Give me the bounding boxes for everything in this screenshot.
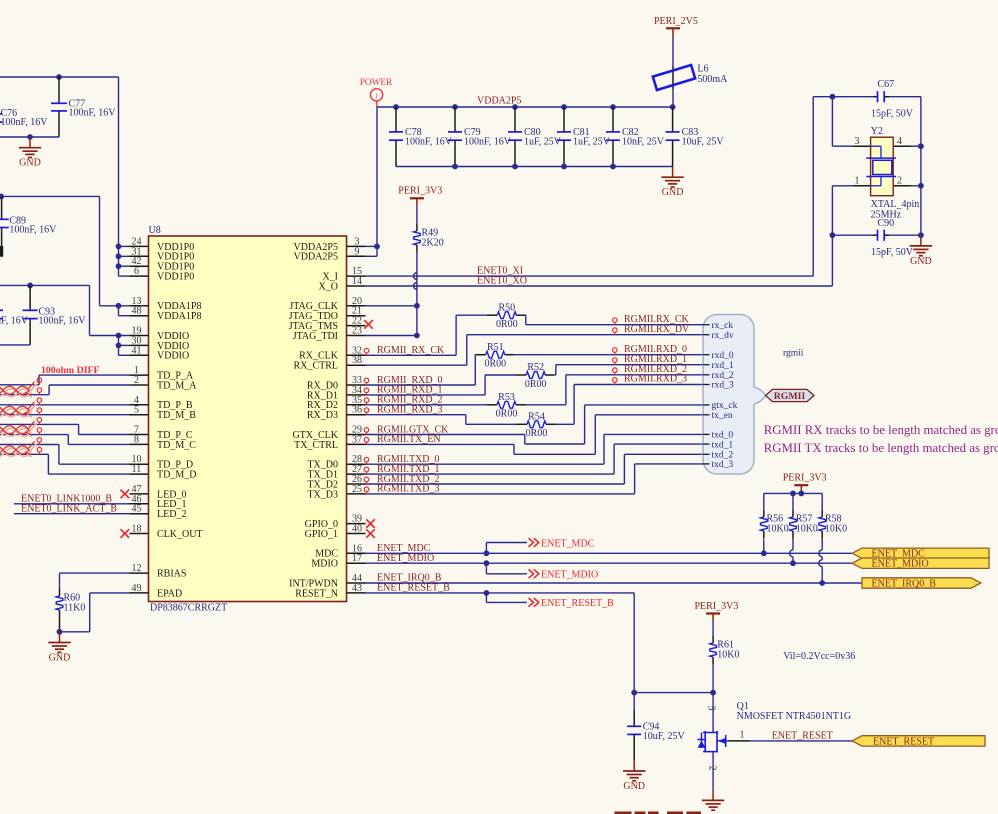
svg-text:TD_M_C: TD_M_C: [157, 440, 196, 451]
svg-text:ENET0_XO: ENET0_XO: [477, 276, 527, 287]
svg-text:10uF, 25V: 10uF, 25V: [682, 136, 725, 147]
svg-text:PERI_3V3: PERI_3V3: [398, 186, 442, 197]
svg-text:36: 36: [352, 405, 362, 416]
svg-text:1uF, 25V: 1uF, 25V: [524, 136, 562, 147]
svg-text:RESET_N: RESET_N: [295, 588, 338, 599]
svg-text:ENET_MDIO: ENET_MDIO: [541, 570, 598, 581]
svg-text:49: 49: [132, 583, 142, 594]
svg-text:38: 38: [352, 355, 362, 366]
svg-text:R50: R50: [498, 302, 515, 313]
svg-text:RGMII.RXD_3: RGMII.RXD_3: [624, 374, 687, 385]
svg-text:100nF, 16V: 100nF, 16V: [405, 136, 453, 147]
svg-text:1uF, 25V: 1uF, 25V: [573, 136, 611, 147]
svg-text:CLK_OUT: CLK_OUT: [157, 529, 203, 540]
svg-text:RGMII.TX_EN: RGMII.TX_EN: [377, 434, 441, 445]
svg-text:11K0: 11K0: [64, 603, 86, 614]
svg-text:VDDIO: VDDIO: [157, 351, 189, 362]
svg-text:10uF, 25V: 10uF, 25V: [643, 731, 686, 742]
svg-text:RX_D3: RX_D3: [307, 410, 338, 421]
svg-text:ENET_RESET_B: ENET_RESET_B: [541, 598, 614, 609]
svg-text:rx_dv: rx_dv: [712, 331, 734, 341]
svg-text:rxd_3: rxd_3: [712, 381, 734, 391]
svg-text:14: 14: [352, 276, 362, 287]
svg-text:15pF, 50V: 15pF, 50V: [871, 247, 914, 258]
svg-text:NMOSFET NTR4501NT1G: NMOSFET NTR4501NT1G: [737, 711, 852, 722]
svg-text:10K0: 10K0: [825, 524, 847, 535]
svg-text:500mA: 500mA: [697, 74, 728, 85]
svg-text:48: 48: [132, 306, 142, 317]
svg-text:ENET_RESET: ENET_RESET: [873, 736, 934, 747]
svg-text:MDIO: MDIO: [311, 559, 338, 570]
svg-text:10K0: 10K0: [767, 524, 789, 535]
svg-text:PERI_2V5: PERI_2V5: [654, 16, 698, 27]
svg-text:rx_ck: rx_ck: [712, 321, 734, 331]
svg-text:ENET_RESET: ENET_RESET: [772, 730, 833, 741]
svg-text:RBIAS: RBIAS: [157, 569, 186, 580]
svg-text:8: 8: [134, 434, 139, 445]
svg-text:2K20: 2K20: [422, 238, 444, 249]
svg-text:45: 45: [132, 504, 142, 515]
svg-text:0R00: 0R00: [496, 409, 518, 420]
svg-text:tx_en: tx_en: [712, 411, 733, 421]
svg-text:VDD1P0: VDD1P0: [157, 272, 194, 283]
svg-text:10nF, 25V: 10nF, 25V: [622, 136, 665, 147]
svg-text:rxd_1: rxd_1: [712, 361, 734, 371]
svg-text:RGMII_RXD_3: RGMII_RXD_3: [377, 405, 443, 416]
svg-text:TD_M_B: TD_M_B: [157, 410, 196, 421]
svg-text:11: 11: [132, 464, 142, 475]
svg-text:17: 17: [352, 553, 362, 564]
svg-text:TX_CTRL: TX_CTRL: [294, 440, 338, 451]
svg-text:2: 2: [707, 766, 718, 771]
svg-text:txd_1: txd_1: [712, 440, 734, 450]
svg-text:GND: GND: [623, 781, 645, 792]
svg-text:GND: GND: [662, 187, 684, 198]
svg-text:LED_2: LED_2: [157, 509, 186, 520]
svg-text:POWER: POWER: [360, 78, 393, 88]
svg-text:txd_3: txd_3: [712, 460, 734, 470]
svg-text:0R00: 0R00: [526, 428, 548, 439]
svg-text:5: 5: [134, 405, 139, 416]
svg-text:2: 2: [134, 375, 139, 386]
svg-text:15pF, 50V: 15pF, 50V: [871, 109, 914, 120]
svg-text:RGMII.TXD_3: RGMII.TXD_3: [377, 484, 440, 495]
svg-text:rxd_2: rxd_2: [712, 371, 734, 381]
svg-text:1: 1: [855, 175, 860, 186]
svg-text:25MHz: 25MHz: [871, 209, 902, 220]
svg-text:0R00: 0R00: [525, 379, 547, 390]
svg-text:RX_CTRL: RX_CTRL: [294, 361, 338, 372]
svg-text:100nF, 16V: 100nF, 16V: [1, 117, 49, 128]
svg-text:ENET0_LINK_ACT_B: ENET0_LINK_ACT_B: [21, 503, 117, 514]
svg-text:TX_D3: TX_D3: [307, 489, 338, 500]
svg-text:0R00: 0R00: [496, 319, 518, 330]
svg-text:C67: C67: [878, 79, 895, 90]
svg-text:R53: R53: [498, 392, 515, 403]
svg-text:RGMII.RX_DV: RGMII.RX_DV: [624, 324, 690, 335]
svg-text:VDDA1P8: VDDA1P8: [157, 311, 201, 322]
svg-text:X_O: X_O: [319, 281, 338, 292]
svg-text:6: 6: [134, 266, 139, 277]
svg-text:ENET_MDIO: ENET_MDIO: [872, 559, 929, 570]
svg-text:ENET_RESET_B: ENET_RESET_B: [377, 583, 450, 594]
svg-text:2: 2: [897, 175, 902, 186]
svg-text:GND: GND: [19, 158, 41, 169]
svg-text:4: 4: [897, 136, 902, 147]
svg-text:RGMII_RX_CK: RGMII_RX_CK: [377, 345, 445, 356]
svg-text:GPIO_1: GPIO_1: [305, 529, 338, 540]
svg-text:U8: U8: [149, 225, 161, 236]
svg-text:GND: GND: [49, 652, 71, 663]
svg-text:TD_M_D: TD_M_D: [157, 470, 196, 481]
svg-text:100ohm DIFF: 100ohm DIFF: [41, 365, 100, 376]
svg-text:100nF, 16V: 100nF, 16V: [69, 108, 117, 119]
svg-text:18: 18: [132, 524, 142, 535]
svg-text:R51: R51: [487, 342, 504, 353]
svg-text:37: 37: [352, 434, 362, 445]
svg-text:ENET_IRQ0_B: ENET_IRQ0_B: [872, 578, 937, 589]
svg-text:Vil=0.2Vcc=0v36: Vil=0.2Vcc=0v36: [783, 651, 855, 662]
svg-text:100nF, 16V: 100nF, 16V: [0, 316, 29, 327]
svg-text:ENET_MDC: ENET_MDC: [541, 538, 595, 549]
svg-text:40: 40: [352, 524, 362, 535]
svg-text:txd_0: txd_0: [712, 431, 734, 441]
svg-text:PERI_3V3: PERI_3V3: [695, 601, 739, 612]
svg-text:Y2: Y2: [871, 126, 883, 137]
svg-text:RGMII RX tracks to be length m: RGMII RX tracks to be length matched as …: [764, 423, 998, 437]
svg-text:R54: R54: [528, 411, 545, 422]
svg-text:10K0: 10K0: [796, 524, 818, 535]
svg-text:43: 43: [352, 583, 362, 594]
svg-text:3: 3: [706, 706, 717, 711]
svg-text:GND: GND: [910, 256, 932, 267]
svg-text:3: 3: [855, 136, 860, 147]
svg-text:25: 25: [352, 484, 362, 495]
svg-text:JTAG_TDI: JTAG_TDI: [293, 331, 338, 342]
svg-text:0R00: 0R00: [484, 359, 506, 370]
svg-text:10K0: 10K0: [717, 650, 739, 661]
svg-text:1: 1: [740, 730, 745, 741]
svg-text:100nF, 16V: 100nF, 16V: [464, 136, 512, 147]
svg-text:EPAD: EPAD: [157, 588, 182, 599]
svg-text:41: 41: [132, 345, 142, 356]
svg-text:rxd_0: rxd_0: [712, 351, 734, 361]
svg-text:ENET_MDIO: ENET_MDIO: [377, 553, 434, 564]
svg-text:VDDA2P5: VDDA2P5: [294, 252, 338, 263]
svg-text:rgmii: rgmii: [783, 348, 804, 358]
svg-text:23: 23: [352, 326, 362, 337]
svg-text:R52: R52: [527, 362, 544, 373]
svg-text:txd_2: txd_2: [712, 451, 734, 461]
svg-text:9: 9: [355, 246, 360, 257]
svg-text:12: 12: [132, 563, 142, 574]
svg-text:RGMII: RGMII: [774, 391, 806, 402]
svg-text:TD_M_A: TD_M_A: [157, 380, 197, 391]
svg-text:PERI_3V3: PERI_3V3: [783, 473, 827, 484]
svg-text:gtx_ck: gtx_ck: [712, 401, 738, 411]
svg-text:100nF, 16V: 100nF, 16V: [9, 225, 57, 236]
svg-text:RGMII TX tracks to be length m: RGMII TX tracks to be length matched as …: [764, 441, 998, 455]
svg-text:DP83867CRRGZT: DP83867CRRGZT: [150, 602, 227, 613]
svg-text:100nF, 16V: 100nF, 16V: [39, 316, 87, 327]
